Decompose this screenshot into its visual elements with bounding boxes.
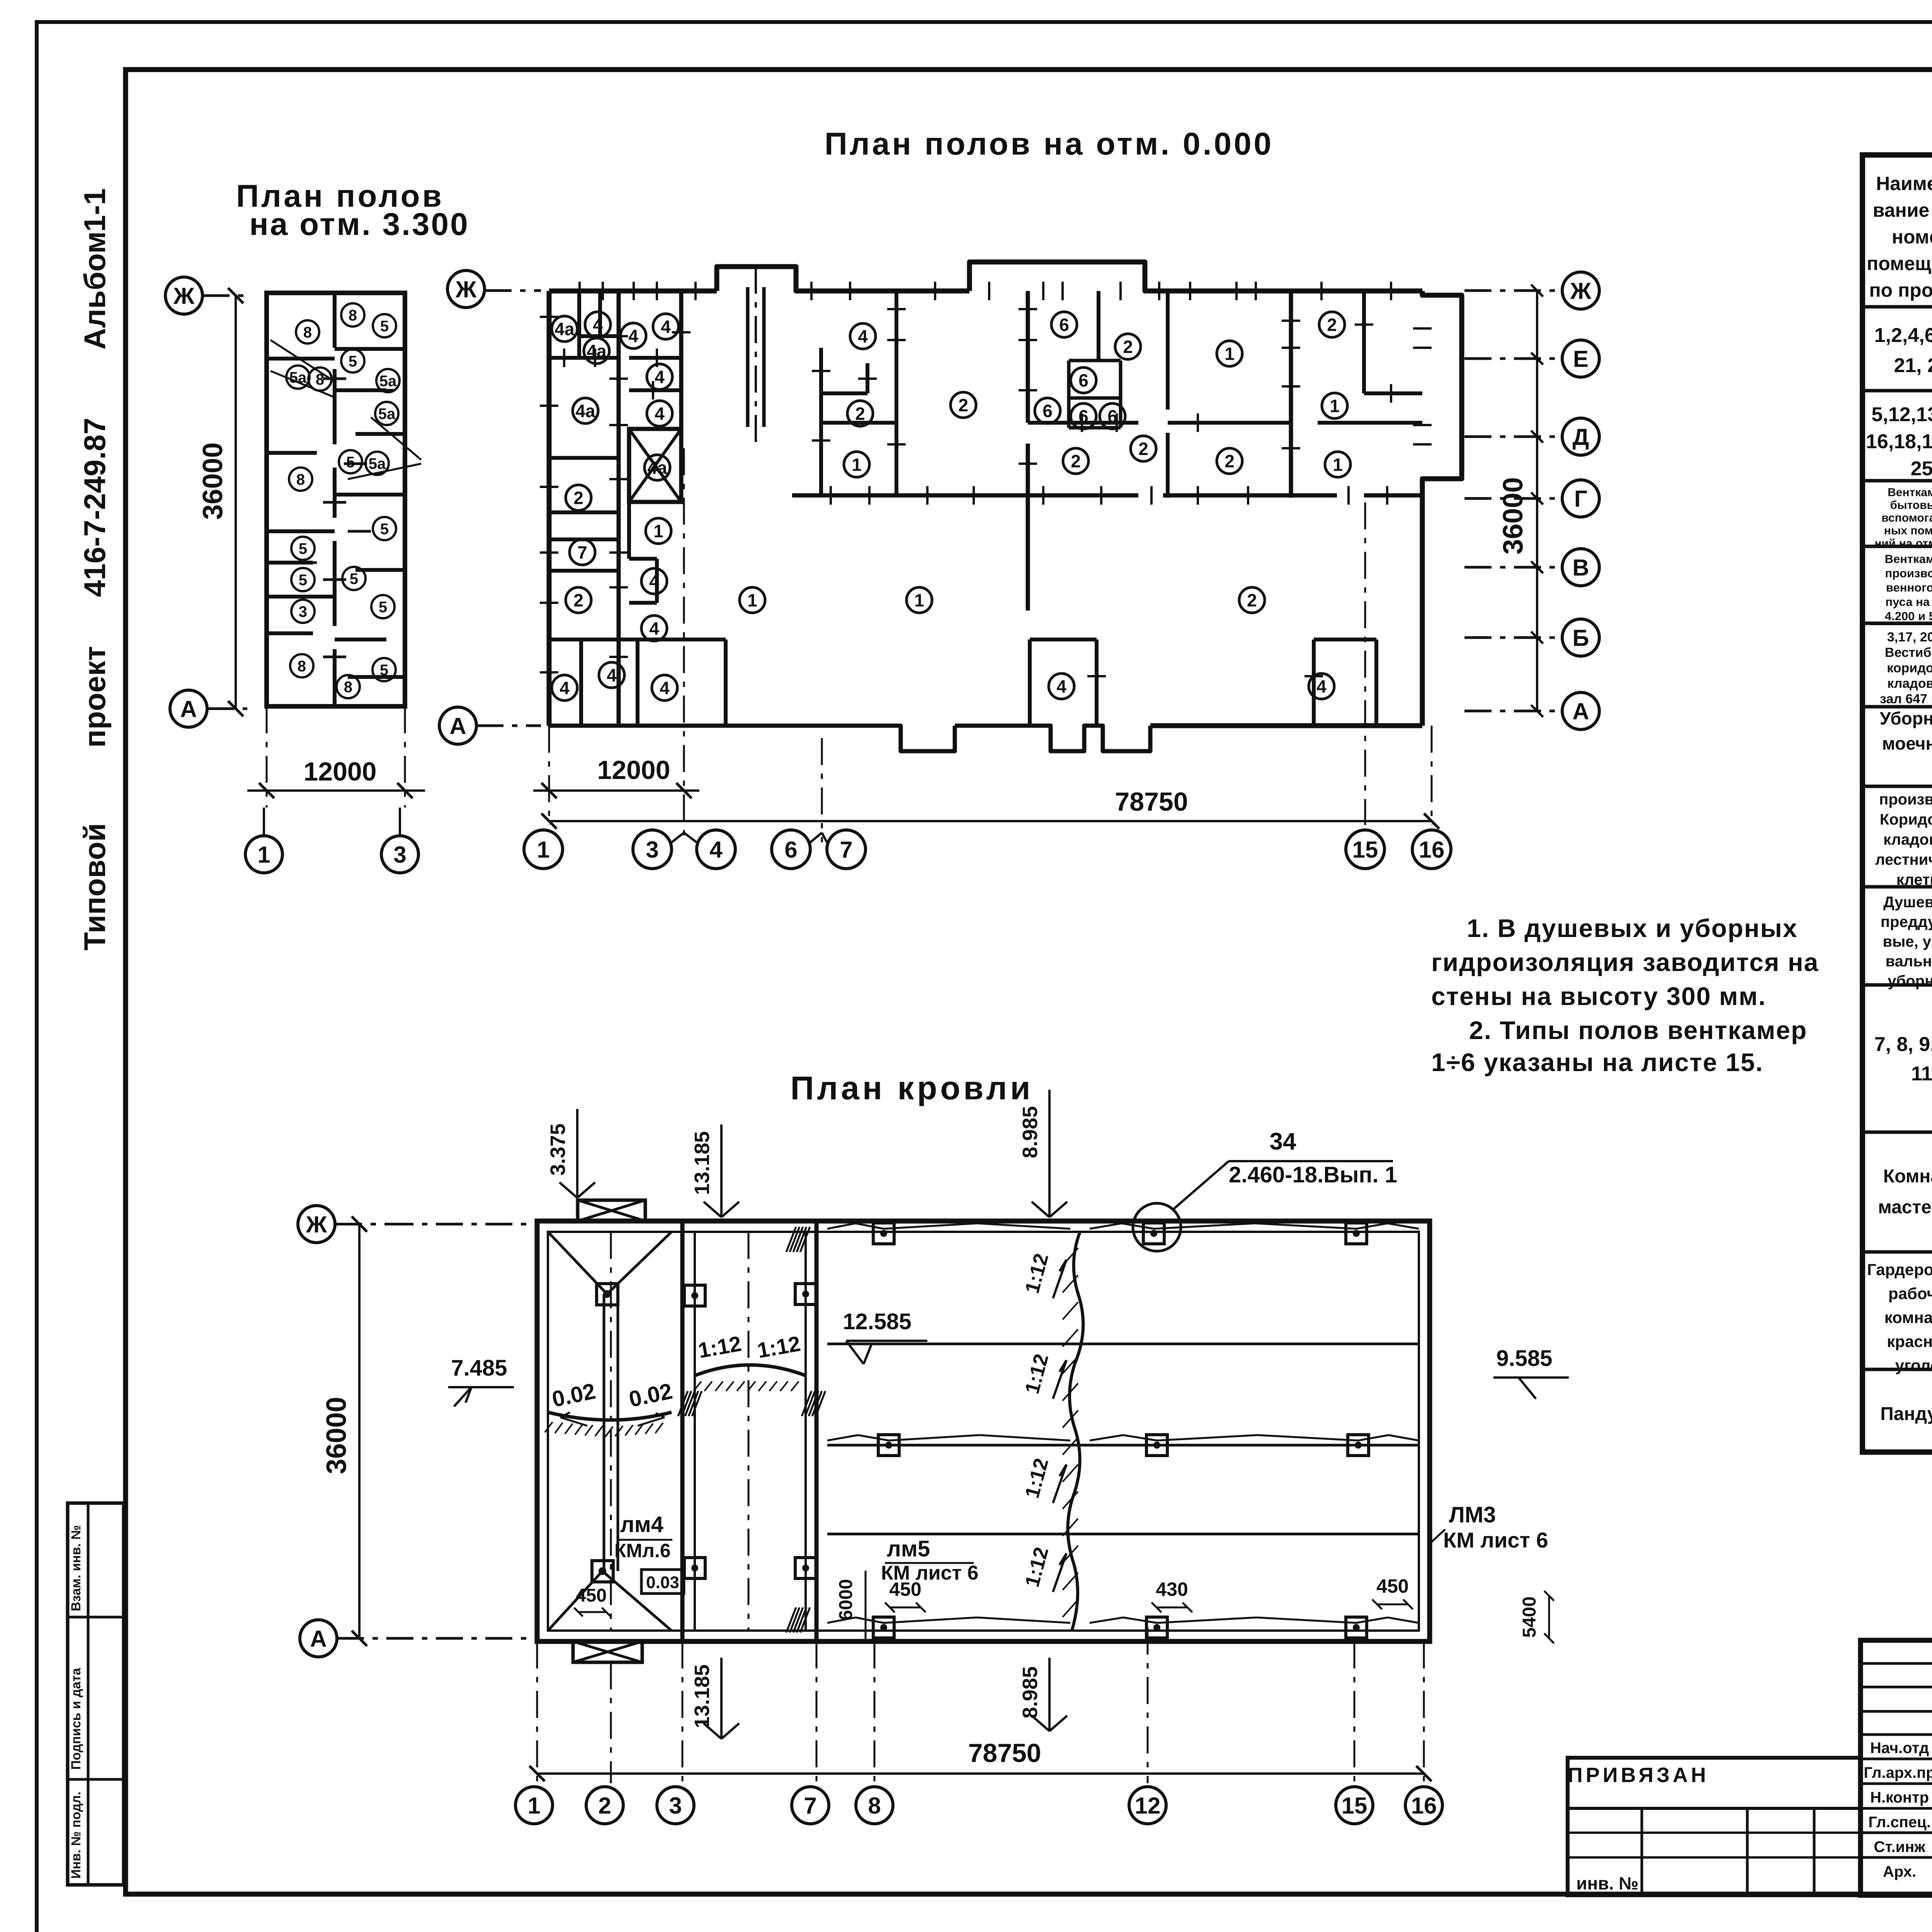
main plan bottom rooms — [1030, 638, 1097, 641]
svg-text:4: 4 — [858, 327, 868, 347]
small plan axis 1 — [245, 836, 282, 873]
roof outline — [537, 1221, 1430, 1641]
svg-text:А: А — [1572, 699, 1589, 724]
svg-text:7, 8, 9, 10,: 7, 8, 9, 10, — [1874, 1033, 1932, 1056]
svg-text:1,2,4,6,15,: 1,2,4,6,15, — [1874, 324, 1932, 347]
svg-text:лестничные: лестничные — [1875, 851, 1932, 868]
svg-text:1: 1 — [852, 455, 862, 475]
svg-text:11: 11 — [1911, 1063, 1932, 1085]
small plan bottom dimension 12000 — [266, 706, 268, 808]
svg-text:3: 3 — [646, 837, 658, 863]
main plan long mid wall — [792, 493, 1138, 498]
svg-text:уборные: уборные — [1888, 973, 1932, 990]
left margin stamp strip — [68, 1503, 124, 1885]
svg-text:1: 1 — [1333, 455, 1343, 475]
svg-text:Гл.спец.: Гл.спец. — [1868, 1814, 1931, 1831]
roof axis А left — [300, 1620, 337, 1657]
svg-text:1: 1 — [1225, 344, 1235, 364]
privyazan block — [1568, 1758, 1861, 1895]
main plan right dimension 36000 — [1536, 291, 1538, 711]
svg-text:6: 6 — [1078, 371, 1088, 391]
svg-text:мастеров: мастеров — [1878, 1197, 1932, 1218]
svg-text:ЛМ3: ЛМ3 — [1449, 1502, 1496, 1527]
main plan room labels — [552, 316, 577, 342]
svg-text:вание или: вание или — [1873, 199, 1932, 221]
svg-text:13.185: 13.185 — [690, 1131, 714, 1195]
svg-text:рабочие: рабочие — [1888, 1284, 1932, 1303]
svg-text:2: 2 — [855, 404, 865, 424]
svg-text:4: 4 — [655, 404, 665, 424]
svg-text:6: 6 — [1059, 315, 1069, 335]
roof axis numbers — [515, 1787, 553, 1824]
svg-text:450: 450 — [1376, 1575, 1408, 1597]
svg-text:Ж: Ж — [455, 277, 477, 303]
roof middle hatches — [786, 1227, 796, 1252]
roof middle section — [695, 1365, 806, 1376]
svg-text:78750: 78750 — [968, 1738, 1041, 1768]
svg-text:450: 450 — [889, 1578, 921, 1600]
svg-text:1: 1 — [257, 842, 270, 868]
main plan axis Ж left — [447, 270, 485, 308]
svg-text:34: 34 — [1270, 1128, 1296, 1155]
svg-text:9.585: 9.585 — [1496, 1346, 1552, 1371]
svg-text:5: 5 — [299, 540, 307, 557]
svg-text:5а: 5а — [378, 405, 396, 422]
main plan axis А left — [439, 707, 476, 744]
roof drain slope lines — [827, 1223, 855, 1229]
svg-text:5: 5 — [350, 570, 358, 587]
svg-text:красный: красный — [1887, 1332, 1932, 1350]
small plan inner vertical wall — [333, 293, 337, 348]
svg-text:2: 2 — [598, 1793, 611, 1819]
svg-text:1: 1 — [537, 837, 549, 863]
svg-text:проект: проект — [78, 646, 112, 748]
svg-text:Ж: Ж — [1570, 278, 1592, 304]
roof bottom protrusion — [573, 1641, 642, 1662]
svg-text:16,18,19,23,: 16,18,19,23, — [1866, 430, 1932, 453]
svg-text:Взам. инв. №: Взам. инв. № — [69, 1525, 83, 1611]
svg-text:6: 6 — [1043, 401, 1053, 421]
svg-text:4а: 4а — [647, 458, 667, 478]
svg-text:уголок: уголок — [1895, 1356, 1932, 1374]
svg-text:венного кор: венного кор — [1886, 581, 1932, 594]
svg-text:21, 22: 21, 22 — [1894, 354, 1932, 377]
svg-text:1: 1 — [527, 1793, 540, 1819]
svg-text:КМ лист 6: КМ лист 6 — [1443, 1528, 1548, 1552]
small plan axis 3 — [381, 836, 418, 873]
svg-text:Венткамеры: Венткамеры — [1885, 552, 1932, 566]
svg-text:на отм. 3.300: на отм. 3.300 — [249, 207, 469, 242]
svg-text:по проекту: по проекту — [1869, 279, 1932, 301]
svg-text:1÷6 указаны на листе 15.: 1÷6 указаны на листе 15. — [1431, 1048, 1764, 1077]
svg-text:2: 2 — [1225, 451, 1235, 471]
small plan right room walls — [335, 347, 405, 351]
small plan axis А — [170, 690, 207, 727]
svg-text:4: 4 — [709, 837, 723, 863]
svg-text:5400: 5400 — [1519, 1597, 1540, 1638]
main plan door ticks — [563, 349, 565, 367]
svg-text:2: 2 — [1123, 337, 1133, 357]
svg-text:3: 3 — [393, 842, 406, 868]
title block outline — [1861, 1640, 1932, 1895]
svg-text:Гл.арх.пр: Гл.арх.пр — [1864, 1764, 1932, 1781]
svg-text:лм5: лм5 — [887, 1536, 930, 1561]
svg-text:15: 15 — [1342, 1793, 1367, 1819]
roof callout 34 — [1133, 1203, 1181, 1251]
svg-text:3: 3 — [299, 603, 307, 620]
svg-text:Душевые,: Душевые, — [1883, 894, 1932, 911]
svg-text:5а: 5а — [369, 455, 386, 472]
svg-text:А: А — [180, 696, 197, 722]
small plan door ticks — [290, 357, 313, 360]
roof left section hip lines — [548, 1232, 607, 1294]
roof funnel left bottom — [592, 1561, 613, 1582]
main plan axis numbers — [524, 830, 563, 869]
svg-text:16: 16 — [1419, 837, 1445, 863]
svg-text:Гардеробные: Гардеробные — [1867, 1260, 1932, 1279]
svg-text:5: 5 — [379, 599, 387, 616]
svg-text:12000: 12000 — [303, 757, 376, 786]
svg-text:инв. №: инв. № — [1576, 1873, 1638, 1893]
small plan left room walls — [267, 357, 335, 361]
svg-text:Комната: Комната — [1883, 1166, 1932, 1187]
svg-text:6000: 6000 — [836, 1579, 856, 1621]
svg-text:8: 8 — [303, 324, 312, 341]
svg-text:вальные,: вальные, — [1886, 953, 1932, 970]
svg-text:4: 4 — [607, 665, 617, 685]
svg-text:25: 25 — [1911, 457, 1932, 480]
svg-text:Б: Б — [1572, 625, 1589, 651]
svg-text:4: 4 — [660, 678, 670, 698]
svg-text:16: 16 — [1411, 1793, 1437, 1819]
svg-text:кладовые: кладовые — [1883, 831, 1932, 848]
roof axis Ж left — [298, 1206, 335, 1243]
svg-text:пуса на отм.: пуса на отм. — [1885, 595, 1932, 609]
main plan bottom dimensions — [548, 726, 550, 825]
svg-text:36000: 36000 — [321, 1397, 352, 1474]
svg-text:Г: Г — [1574, 486, 1587, 512]
svg-text:8: 8 — [868, 1793, 881, 1819]
svg-text:1: 1 — [747, 590, 757, 611]
svg-text:4: 4 — [649, 571, 659, 592]
roof dim 6000 — [865, 1571, 867, 1641]
svg-text:4а: 4а — [575, 401, 595, 421]
svg-text:1-1: 1-1 — [78, 188, 112, 232]
roof left drain line — [548, 1412, 672, 1420]
svg-text:5а: 5а — [289, 369, 307, 386]
svg-text:2: 2 — [1138, 439, 1148, 459]
svg-text:3,17, 20, 24: 3,17, 20, 24 — [1887, 630, 1932, 645]
svg-text:4: 4 — [1316, 677, 1327, 697]
svg-text:5а: 5а — [379, 372, 397, 389]
svg-text:Арх.: Арх. — [1883, 1863, 1916, 1880]
svg-text:36000: 36000 — [1498, 477, 1529, 554]
svg-text:Ж: Ж — [306, 1212, 327, 1238]
svg-text:Н.контр: Н.контр — [1870, 1789, 1929, 1806]
svg-text:416-7-249.87: 416-7-249.87 — [78, 418, 112, 597]
small plan vertical dimension 36000 — [235, 296, 237, 709]
svg-text:8: 8 — [344, 679, 352, 696]
roof funnels right rows — [873, 1223, 894, 1244]
main plan vent shaft — [629, 429, 681, 502]
svg-text:4а: 4а — [554, 319, 575, 339]
svg-text:вые, умы-: вые, умы- — [1883, 933, 1932, 950]
svg-text:12000: 12000 — [597, 755, 670, 785]
svg-text:2: 2 — [1327, 315, 1337, 335]
svg-text:6: 6 — [1078, 406, 1088, 427]
svg-text:Е: Е — [1573, 346, 1588, 372]
svg-text:5: 5 — [299, 571, 307, 588]
svg-text:производст-: производст- — [1885, 566, 1932, 580]
svg-text:А: А — [310, 1626, 327, 1652]
svg-text:36000: 36000 — [197, 442, 228, 520]
svg-text:Д: Д — [1573, 424, 1589, 450]
main plan right block walls — [1028, 421, 1138, 425]
svg-text:Пандусы: Пандусы — [1880, 1404, 1932, 1424]
svg-text:2.460-18.Вып. 1: 2.460-18.Вып. 1 — [1229, 1162, 1397, 1187]
svg-text:4: 4 — [560, 678, 570, 698]
svg-text:8: 8 — [316, 371, 324, 388]
roof dim 13.185 bottom — [720, 1658, 723, 1739]
svg-text:2: 2 — [573, 590, 583, 611]
roof dim 3.375 — [576, 1109, 578, 1198]
svg-text:А: А — [449, 713, 466, 739]
roof left dim 36000 — [358, 1224, 361, 1638]
svg-text:ных помеще-: ных помеще- — [1884, 524, 1932, 537]
svg-text:7: 7 — [577, 543, 587, 563]
roof funnels middle — [684, 1285, 705, 1306]
table frame — [1862, 155, 1932, 1452]
svg-text:бытовых и: бытовых и — [1890, 499, 1932, 512]
svg-text:8: 8 — [349, 307, 357, 324]
svg-text:4а: 4а — [587, 341, 607, 361]
main plan big center wall — [1026, 291, 1030, 423]
small plan axis Ж — [165, 277, 202, 314]
roof dim 8.985 bottom — [1048, 1658, 1051, 1731]
small plan outline — [267, 293, 405, 706]
svg-text:Подпись и дата: Подпись и дата — [69, 1667, 83, 1770]
svg-text:4.200 и 5.100: 4.200 и 5.100 — [1885, 609, 1932, 623]
svg-text:8: 8 — [298, 658, 306, 675]
svg-text:430: 430 — [1156, 1578, 1188, 1600]
svg-text:План полов на отм. 0.000: План полов на отм. 0.000 — [825, 126, 1274, 162]
roof ridge wavy line — [1068, 1232, 1083, 1631]
svg-text:5: 5 — [349, 353, 357, 370]
roof section dividers — [680, 1221, 685, 1641]
svg-text:1: 1 — [914, 590, 924, 611]
svg-text:4: 4 — [1056, 677, 1066, 697]
svg-text:2. Типы полов венткамер: 2. Типы полов венткамер — [1469, 1016, 1807, 1044]
svg-text:5: 5 — [346, 454, 355, 471]
roof dim 5400 — [1548, 1596, 1550, 1638]
svg-text:15: 15 — [1352, 837, 1378, 863]
svg-text:8.985: 8.985 — [1019, 1666, 1042, 1718]
svg-text:450: 450 — [576, 1585, 607, 1606]
svg-text:Ж: Ж — [173, 283, 195, 309]
svg-text:78750: 78750 — [1115, 787, 1188, 816]
svg-text:3: 3 — [669, 1793, 682, 1819]
svg-text:3.375: 3.375 — [546, 1123, 570, 1175]
svg-text:5,12,13,14,: 5,12,13,14, — [1871, 403, 1932, 426]
svg-text:2: 2 — [1071, 451, 1081, 471]
svg-text:0.03: 0.03 — [646, 1573, 679, 1592]
svg-text:2: 2 — [958, 395, 968, 415]
main plan interior walls left block — [617, 291, 621, 726]
main plan middle rooms — [819, 348, 823, 495]
svg-text:Нач.отд: Нач.отд — [1870, 1740, 1929, 1757]
svg-text:4: 4 — [628, 326, 638, 346]
main plan corridor walls — [627, 502, 631, 559]
svg-text:План кровли: План кровли — [790, 1070, 1033, 1107]
svg-text:помещения: помещения — [1867, 253, 1932, 274]
svg-text:4: 4 — [655, 367, 665, 387]
svg-text:Инв. № подл.: Инв. № подл. — [69, 1791, 83, 1879]
svg-text:6: 6 — [1107, 406, 1117, 427]
svg-text:1. В душевых и уборных: 1. В душевых и уборных — [1467, 914, 1798, 942]
svg-text:5: 5 — [380, 318, 389, 335]
svg-text:Вестибюли: Вестибюли — [1885, 645, 1932, 660]
roof top protrusion — [578, 1200, 645, 1221]
svg-text:стены на высоту 300 мм.: стены на высоту 300 мм. — [1431, 982, 1766, 1010]
svg-text:комнаты,: комнаты, — [1884, 1308, 1932, 1327]
roof dim 13.185 top — [720, 1124, 723, 1217]
svg-text:1: 1 — [653, 521, 663, 541]
svg-text:номер: номер — [1892, 226, 1932, 248]
svg-text:Типовой: Типовой — [78, 823, 112, 951]
svg-text:7: 7 — [804, 1793, 816, 1819]
roof bottom dimension 78750 — [536, 1641, 538, 1783]
svg-text:2: 2 — [1247, 590, 1257, 611]
svg-text:Ст.инж: Ст.инж — [1874, 1838, 1925, 1855]
svg-text:8: 8 — [296, 471, 305, 488]
svg-text:2: 2 — [573, 488, 583, 508]
svg-text:вспомогатель: вспомогатель — [1881, 512, 1932, 524]
svg-text:коридоры,: коридоры, — [1887, 661, 1932, 675]
roof slope arrows 1:12 — [1053, 1260, 1066, 1298]
small plan room labels — [296, 320, 319, 344]
svg-text:7.485: 7.485 — [451, 1355, 507, 1381]
svg-text:12.585: 12.585 — [843, 1309, 911, 1334]
svg-text:13.185: 13.185 — [690, 1664, 714, 1728]
main plan outer walls — [549, 289, 717, 294]
roof dim 8.985 top — [1048, 1090, 1051, 1217]
svg-text:12: 12 — [1135, 1793, 1161, 1819]
svg-text:5: 5 — [380, 662, 388, 679]
svg-text:ПРИВЯЗАН: ПРИВЯЗАН — [1568, 1764, 1709, 1787]
svg-text:Коридоры,: Коридоры, — [1880, 811, 1932, 828]
svg-text:ний на отм.3.300: ний на отм.3.300 — [1874, 537, 1932, 550]
svg-text:4: 4 — [661, 317, 671, 337]
svg-text:произв. уч.: произв. уч. — [1879, 791, 1932, 808]
svg-text:4: 4 — [593, 315, 603, 335]
svg-text:преддуше-: преддуше- — [1881, 913, 1932, 930]
svg-text:Альбом: Альбом — [78, 231, 112, 350]
svg-text:Венткамера: Венткамера — [1888, 486, 1932, 499]
svg-text:зал 647 и т.д.: зал 647 и т.д. — [1880, 692, 1932, 706]
small plan leader lines — [270, 340, 336, 383]
roof funnel left top — [597, 1284, 618, 1305]
svg-text:В: В — [1572, 555, 1589, 581]
roof right section joints — [827, 1343, 1419, 1345]
svg-text:Уборные,: Уборные, — [1880, 708, 1932, 728]
svg-text:6: 6 — [784, 837, 797, 863]
svg-text:1: 1 — [1330, 396, 1340, 416]
svg-text:моечная,: моечная, — [1882, 733, 1932, 753]
svg-text:клетки: клетки — [1896, 871, 1932, 888]
svg-text:КМл.6: КМл.6 — [614, 1540, 671, 1561]
svg-text:гидроизоляция заводится на: гидроизоляция заводится на — [1431, 948, 1819, 976]
svg-text:5: 5 — [380, 520, 389, 537]
main plan right axis circles — [1464, 289, 1562, 292]
svg-text:Наимено-: Наимено- — [1876, 173, 1932, 194]
svg-text:7: 7 — [840, 837, 852, 863]
svg-text:8.985: 8.985 — [1019, 1106, 1042, 1158]
svg-text:лм4: лм4 — [620, 1512, 663, 1537]
table row lines — [1862, 305, 1932, 309]
title block signature rows — [1861, 1662, 1932, 1665]
svg-text:4: 4 — [649, 619, 659, 639]
svg-text:кладовые,: кладовые, — [1887, 676, 1932, 691]
main plan stairwell lines — [746, 287, 750, 427]
